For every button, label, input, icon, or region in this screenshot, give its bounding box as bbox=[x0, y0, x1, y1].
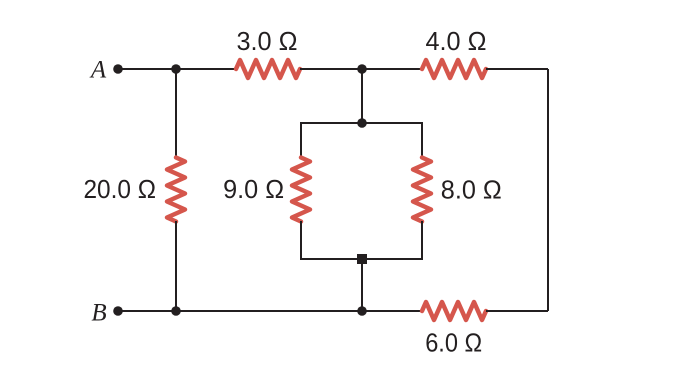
wire top left: A to 3.0 ohm bbox=[118, 68, 237, 70]
wire left branch upper lead bbox=[175, 69, 177, 158]
resistor R3 20.0 ohm bbox=[167, 158, 185, 222]
svg-text:8.0 Ω: 8.0 Ω bbox=[441, 175, 502, 205]
node: top mid junction bbox=[357, 64, 367, 74]
resistor R2 4.0 ohm bbox=[422, 60, 486, 78]
resistor R6 6.0 ohm bbox=[422, 302, 486, 320]
node: inner box top junction bbox=[357, 118, 367, 128]
node: bottom of 20 ohm branch bbox=[171, 306, 181, 316]
svg-text:20.0 Ω: 20.0 Ω bbox=[83, 174, 156, 204]
svg-text:6.0 Ω: 6.0 Ω bbox=[425, 328, 482, 358]
wire right rail bbox=[547, 69, 549, 311]
resistor R5 8.0 ohm bbox=[413, 158, 431, 222]
wire: top mid node to 4.0 ohm bbox=[362, 68, 422, 70]
resistor R1 3.0 ohm bbox=[236, 60, 300, 78]
wire: inner box to bottom mid node bbox=[361, 259, 363, 311]
wire inner box top bbox=[301, 123, 422, 158]
wire: 6.0 ohm to bottom right corner bbox=[486, 310, 548, 312]
terminal A dot bbox=[113, 64, 123, 74]
node: inner box bottom junction (square) bbox=[357, 254, 367, 264]
wire: top mid node down to inner box bbox=[361, 69, 363, 123]
wire bottom: B to bottom mid node bbox=[118, 310, 362, 312]
svg-text:A: A bbox=[89, 57, 107, 84]
svg-text:B: B bbox=[91, 300, 106, 327]
node: bottom mid junction bbox=[357, 306, 367, 316]
svg-text:9.0 Ω: 9.0 Ω bbox=[223, 174, 284, 204]
terminal B dot bbox=[113, 306, 123, 316]
svg-text:3.0 Ω: 3.0 Ω bbox=[237, 26, 298, 56]
wire: 3.0 ohm to top mid node bbox=[300, 68, 362, 70]
svg-text:4.0 Ω: 4.0 Ω bbox=[426, 26, 487, 56]
wire: bottom mid node to 6.0 ohm bbox=[362, 310, 422, 312]
node: top of 20 ohm branch bbox=[171, 64, 181, 74]
wire left branch lower lead bbox=[175, 221, 177, 311]
resistor R4 9.0 ohm bbox=[292, 158, 310, 222]
wire: 4.0 ohm to top right corner bbox=[486, 68, 548, 70]
wire inner box bottom bbox=[301, 221, 422, 259]
